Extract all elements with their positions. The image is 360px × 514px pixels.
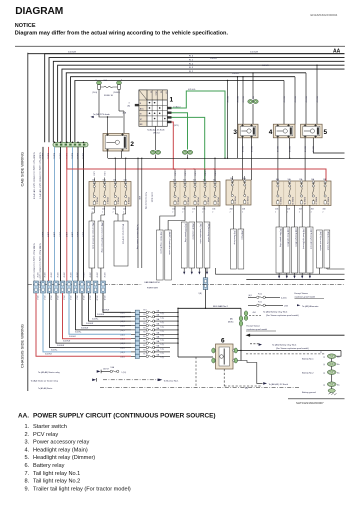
svg-text:5.00 B-W: 5.00 B-W — [210, 58, 217, 60]
inline connector — [73, 281, 78, 293]
svg-text:6: 6 — [221, 338, 225, 345]
battery No.2 cell a — [327, 370, 336, 375]
svg-text:FUSE 2: FUSE 2 — [106, 198, 108, 205]
svg-text:0.85 R-W: 0.85 R-W — [315, 96, 317, 103]
solid return line right — [246, 278, 344, 280]
svg-text:[EX] Wiper and washer: [EX] Wiper and washer — [319, 232, 322, 252]
svg-text:3.00 H-W: 3.00 H-W — [63, 341, 71, 343]
label box B2 — [197, 222, 203, 268]
svg-text:FL 12: FL 12 — [258, 293, 262, 295]
svg-text:30a: 30a — [337, 372, 340, 374]
svg-text:[FF] Accessory socket: [FF] Accessory socket — [207, 224, 210, 243]
wire elbow fuse B1 to mid box — [160, 206, 175, 230]
wire red main feed — [67, 147, 326, 181]
svg-text:3.00 W: 3.00 W — [50, 273, 52, 278]
svg-text:Diagram may differ from the ac: Diagram may differ from the actual wirin… — [15, 30, 229, 36]
earth joint connector mid-left — [150, 150, 160, 154]
fusible link — [257, 304, 259, 306]
wire chassis 43 — [43, 293, 131, 352]
svg-text:(For Taiwan explosion-proof mo: (For Taiwan explosion-proof model) — [266, 314, 299, 317]
wire bus FL line 4 — [58, 65, 345, 142]
svg-text:0.85 R-W: 0.85 R-W — [304, 96, 306, 103]
svg-text:FL 4: FL 4 — [144, 336, 147, 338]
bottom dashdot long — [100, 387, 300, 389]
wire elbow fuse B2 to mid box — [168, 206, 185, 230]
svg-text:7.: 7. — [25, 471, 30, 477]
svg-text:5.00 B-W: 5.00 B-W — [68, 52, 76, 54]
svg-text:0.85 R-L: 0.85 R-L — [59, 153, 61, 159]
svg-text:3.00 B-W: 3.00 B-W — [57, 345, 64, 347]
svg-text:SHT01Z21602/00007: SHT01Z21602/00007 — [296, 401, 324, 405]
svg-text:0.85 R-B: 0.85 R-B — [288, 146, 290, 152]
svg-text:To (FA) Intake air heater rela: To (FA) Intake air heater relay — [136, 224, 139, 249]
label box D7 — [324, 230, 330, 268]
fusible link — [146, 333, 148, 335]
relay R4 headlight relay main — [269, 124, 295, 138]
svg-text:FL 8: FL 8 — [144, 314, 147, 316]
svg-text:[EX] Accessory socket: [EX] Accessory socket — [327, 232, 330, 251]
wire bus bar drop — [240, 308, 242, 360]
svg-text:[Fb] Common rail (PCV): [Fb] Common rail (PCV) — [121, 224, 124, 245]
svg-text:3.00 H-L: 3.00 H-L — [51, 349, 58, 351]
wire bus FL line 3 — [53, 61, 344, 142]
svg-text:3.00 W: 3.00 W — [69, 273, 71, 278]
svg-text:Battery ground: Battery ground — [302, 391, 316, 394]
svg-text:3: 3 — [129, 103, 130, 105]
svg-text:[CA] Head light(Dimmer): [CA] Head light(Dimmer) — [302, 229, 305, 250]
wire battery link — [331, 366, 333, 370]
svg-text:Battery No.1: Battery No.1 — [302, 358, 314, 361]
fusible link — [146, 329, 148, 331]
svg-text:4CB: 4CB — [182, 209, 185, 211]
wire relay4 bottoms — [277, 138, 279, 181]
svg-text:2: 2 — [287, 211, 288, 213]
svg-text:0.85 R-B: 0.85 R-B — [276, 146, 278, 152]
svg-text:[FH] Radio: [FH] Radio — [241, 231, 243, 240]
svg-text:9.: 9. — [25, 486, 30, 492]
svg-text:3: 3 — [233, 129, 237, 136]
fusible link — [146, 342, 148, 344]
svg-text:FL 6: FL 6 — [144, 327, 147, 329]
inline connector — [54, 281, 59, 293]
arrow PCV diode — [91, 116, 94, 118]
svg-text:CAB SIDE WIRING: CAB SIDE WIRING — [20, 152, 25, 187]
starter switch SW1 table — [139, 90, 167, 126]
svg-text:2.: 2. — [25, 432, 30, 438]
dashed elbows fuse A to boxes — [92, 206, 94, 221]
svg-text:(BA,BC) Combination meter: (BA,BC) Combination meter — [168, 232, 171, 256]
wire relay5 bottoms — [304, 138, 306, 181]
wire drop to relay 4 pin1 — [283, 81, 285, 125]
svg-text:3.00 W: 3.00 W — [53, 232, 55, 238]
svg-text:3.00 W: 3.00 W — [43, 273, 45, 278]
svg-text:CAB MAIN W/H: CAB MAIN W/H — [144, 281, 160, 284]
label box D6 — [317, 230, 323, 268]
svg-text:FUSE 37: FUSE 37 — [315, 197, 317, 205]
svg-text:DIAGRAM: DIAGRAM — [15, 6, 63, 17]
svg-text:(19-G): (19-G) — [92, 92, 97, 94]
wire bus FL line 1 — [45, 54, 345, 143]
svg-text:To (AC,AJ) J/C Earth: To (AC,AJ) J/C Earth — [147, 129, 165, 132]
svg-text:[FC] ECU power relay: [FC] ECU power relay — [184, 224, 187, 242]
svg-text:1.25 B: 1.25 B — [183, 172, 185, 176]
wire bus FL line 5 — [62, 69, 345, 142]
svg-text:FL 11: FL 11 — [258, 301, 262, 303]
svg-text:2: 2 — [275, 211, 276, 213]
svg-text:FL 8: FL 8 — [144, 310, 147, 312]
svg-text:CHASSIS SIDE WIRING: CHASSIS SIDE WIRING — [20, 324, 25, 368]
wire relay5 to right edge — [313, 138, 344, 153]
svg-text:1.: 1. — [25, 424, 30, 430]
svg-text:3.00 W: 3.00 W — [89, 273, 91, 278]
harness boundary cab/chassis — [28, 284, 142, 286]
joint connector green bar — [53, 142, 88, 147]
wire chassis 82 — [82, 293, 131, 326]
svg-text:(LD) 2: (LD) 2 — [121, 352, 125, 354]
svg-text:8.: 8. — [25, 479, 30, 485]
relay R2 PCV relay — [103, 133, 134, 151]
svg-text:(LD) 2: (LD) 2 — [121, 317, 125, 319]
wire chassis 62.5 — [63, 293, 132, 339]
label box B1 — [189, 222, 195, 268]
wire red ST — [172, 122, 174, 169]
label box A2 — [98, 221, 104, 268]
svg-text:FL 7: FL 7 — [144, 319, 147, 321]
svg-text:5.00 B-W: 5.00 B-W — [250, 52, 258, 54]
label box C1 — [238, 229, 244, 269]
left wire bundle — [42, 147, 44, 281]
svg-text:4CB: 4CB — [172, 209, 175, 211]
svg-text:[FE] Combination meter: [FE] Combination meter — [199, 224, 202, 244]
svg-text:19P-GJ: 19P-GJ — [153, 133, 159, 135]
svg-text:FUSE 3: FUSE 3 — [117, 198, 119, 205]
svg-text:Except Taiwan: Except Taiwan — [295, 292, 309, 295]
svg-text:0.85 H-G: 0.85 H-G — [188, 89, 196, 91]
inline connector — [47, 281, 52, 293]
wire collector — [177, 308, 179, 357]
svg-text:[CA] Head light(Main): [CA] Head light(Main) — [287, 229, 290, 247]
svg-text:4CB: 4CB — [192, 209, 195, 211]
svg-text:0.85 R-L: 0.85 R-L — [53, 153, 55, 159]
svg-text:FL 6: FL 6 — [144, 323, 147, 325]
svg-text:EN1ZZ1602J/00004: EN1ZZ1602J/00004 — [311, 13, 338, 17]
svg-text:FL 9: FL 9 — [144, 349, 147, 351]
label box D3 — [299, 227, 305, 273]
svg-text:4CB: 4CB — [113, 209, 116, 211]
svg-text:1 (1-): 1 (1-) — [161, 318, 165, 320]
svg-text:1 (1-): 1 (1-) — [161, 357, 165, 359]
svg-text:Battery relay: Battery relay — [33, 463, 65, 469]
svg-text:FUSE 1: FUSE 1 — [96, 198, 98, 205]
wire tee to relay 3 pin1 — [242, 77, 244, 125]
svg-text:3.00 W: 3.00 W — [56, 273, 58, 278]
fuse block C — [226, 177, 251, 205]
svg-text:FUSE 4: FUSE 4 — [127, 198, 129, 205]
wire chassis 36 — [36, 293, 131, 356]
svg-text:2: 2 — [130, 141, 134, 148]
fuse block D — [272, 178, 331, 205]
battery ground — [331, 387, 333, 390]
svg-text:[FL] Horn power relay: [FL] Horn power relay — [279, 229, 282, 247]
svg-text:Tail light relay No.1: Tail light relay No.1 — [33, 471, 80, 477]
svg-text:1 (1-): 1 (1-) — [161, 313, 165, 315]
svg-text:To (AC) Battery relay No.4: To (AC) Battery relay No.4 — [272, 343, 297, 346]
long arrow line — [249, 334, 345, 336]
svg-text:explosion-proof model: explosion-proof model — [247, 328, 268, 331]
inline connector — [41, 281, 46, 293]
svg-text:4CB: 4CB — [102, 209, 105, 211]
svg-text:1 (1-): 1 (1-) — [161, 344, 165, 346]
svg-text:1: 1 — [170, 97, 174, 104]
svg-text:FUSE 35: FUSE 35 — [303, 197, 305, 205]
svg-text:[FA] Common rail (Vehicle side: [FA] Common rail (Vehicle side) — [92, 223, 95, 250]
wire to bus bar — [205, 290, 207, 309]
wire pair between fuse blocks — [137, 158, 139, 268]
svg-text:(B): (B) — [128, 106, 131, 108]
section rule — [15, 45, 345, 47]
svg-text:FUSE 17: FUSE 17 — [206, 198, 208, 206]
inline connector FL1 — [203, 278, 208, 290]
svg-text:[FN] Common rail (ECU main rel: [FN] Common rail (ECU main relay) — [101, 223, 104, 253]
wire chassis 49.5 — [50, 293, 132, 348]
green connector on bus drop — [239, 316, 243, 321]
fusible link — [146, 320, 148, 322]
svg-text:Except Taiwan: Except Taiwan — [247, 325, 261, 328]
svg-text:FL 5: FL 5 — [144, 332, 147, 334]
wire chassis 95.5 — [96, 293, 132, 317]
wire PCV relay top pins — [107, 117, 109, 134]
earth joint connector mid-right — [182, 150, 192, 154]
inline connector — [80, 281, 85, 293]
svg-text:Battery No.2: Battery No.2 — [302, 372, 314, 375]
svg-text:3.00 W: 3.00 W — [76, 273, 78, 278]
svg-text:1.25 B: 1.25 B — [193, 172, 195, 176]
fusible link — [146, 355, 148, 357]
svg-text:6.: 6. — [25, 463, 30, 469]
label box D4 — [307, 227, 313, 273]
svg-text:FUSE 33: FUSE 33 — [291, 197, 293, 205]
inline connector — [67, 281, 72, 293]
svg-text:Tail light relay No.2: Tail light relay No.2 — [33, 479, 80, 485]
svg-text:0.85 R-B: 0.85 R-B — [312, 146, 314, 152]
wire tee to relay 3 pin2 via earth — [252, 73, 254, 99]
svg-text:FUSE 11: FUSE 11 — [176, 198, 178, 206]
wire chassis 69 — [69, 293, 131, 334]
fusible link — [146, 338, 148, 340]
fusible link — [146, 316, 148, 318]
wire chassis 75.5 — [76, 293, 132, 330]
svg-text:30a: 30a — [337, 364, 340, 366]
svg-text:1 (1-): 1 (1-) — [161, 335, 165, 337]
svg-text:FUSE 16: FUSE 16 — [104, 95, 114, 97]
svg-text:3.00 W: 3.00 W — [82, 232, 84, 238]
svg-text:To (A9) Power supply circuit (: To (A9) Power supply circuit (Starter sw… — [33, 152, 36, 199]
wire bus FL line 7 — [71, 77, 295, 143]
wire bus FL line 2 — [49, 58, 344, 143]
svg-text:FUSE 39: FUSE 39 — [326, 197, 328, 205]
battery No.2 cell b — [327, 382, 336, 387]
svg-text:[FD] Air conditioner: [FD] Air conditioner — [192, 224, 195, 240]
svg-text:(S4) Starter relay (Engine): (S4) Starter relay (Engine) — [160, 232, 163, 254]
bottom right rule — [288, 398, 345, 400]
dashed vertical mid — [195, 357, 197, 388]
svg-text:30a: 30a — [337, 384, 340, 386]
wire chassis 88.5 — [89, 293, 132, 321]
label box mid 1 — [157, 230, 164, 280]
svg-text:3.00 W: 3.00 W — [76, 232, 78, 238]
relay R5 headlight relay dimmer — [301, 124, 328, 138]
label box D0 — [276, 227, 282, 273]
svg-text:NOTICE: NOTICE — [15, 23, 36, 29]
svg-text:ACC: ACC — [140, 107, 145, 110]
wire green M2 to fuse row — [172, 117, 205, 181]
inline connector — [101, 281, 106, 293]
dashed to battery plus — [246, 353, 325, 355]
svg-text:3.00 W: 3.00 W — [59, 232, 61, 238]
svg-text:3.00 W: 3.00 W — [103, 273, 105, 278]
label box B0 — [181, 222, 187, 268]
wire fuse16 right leg — [118, 89, 120, 111]
wire tee drop B — [237, 77, 239, 159]
wire relay to battery No.1 — [238, 350, 342, 352]
wire relay3 bottoms — [242, 138, 244, 180]
svg-text:(For Taiwan explosion-proof mo: (For Taiwan explosion-proof model) — [276, 347, 309, 350]
fusible link — [257, 296, 259, 298]
svg-text:0.85 R-L: 0.85 R-L — [47, 153, 49, 159]
svg-text:To (A5,A6) Starter relay: To (A5,A6) Starter relay — [38, 371, 61, 374]
svg-text:1 (1-): 1 (1-) — [161, 340, 165, 342]
svg-text:rectifier diode: rectifier diode — [151, 192, 154, 202]
fuse FUSE 16 — [92, 79, 122, 97]
svg-text:POWER SUPPLY CIRCUIT (CONTINUO: POWER SUPPLY CIRCUIT (CONTINUOUS POWER S… — [33, 413, 216, 420]
svg-text:1: 1 — [96, 80, 97, 82]
FL 12 row — [248, 296, 256, 298]
svg-text:1.25 B: 1.25 B — [203, 172, 205, 176]
svg-text:[FG] Room lamp: [FG] Room lamp — [233, 231, 235, 245]
wire drop to relay 4 pin2 — [294, 77, 296, 125]
svg-text:BUS BAR No.2: BUS BAR No.2 — [213, 305, 229, 308]
svg-text:FUSE 21: FUSE 21 — [234, 197, 236, 205]
label box mid 2 — [165, 230, 172, 280]
svg-text:1.25 B: 1.25 B — [213, 172, 215, 176]
svg-text:5.00 B-W: 5.00 B-W — [232, 73, 239, 75]
bus bar No.2 line — [178, 307, 241, 309]
svg-text:To (A2) Intake air heater rela: To (A2) Intake air heater relay — [31, 379, 59, 382]
svg-text:FUSE 23: FUSE 23 — [246, 197, 248, 205]
svg-text:(H) 1: (H) 1 — [249, 295, 253, 297]
svg-text:3.00 H-L: 3.00 H-L — [75, 332, 82, 334]
svg-text:5: 5 — [324, 129, 328, 136]
svg-text:3.: 3. — [25, 440, 30, 446]
svg-text:1(B): 1(B) — [199, 293, 202, 295]
svg-text:4X4: 4X4 — [253, 312, 256, 314]
wire relay pin2 to JC earth — [238, 361, 263, 384]
svg-text:To (A9) Power supply circuit (: To (A9) Power supply circuit (Starter sw… — [39, 152, 42, 199]
svg-text:To (AX) Alternator: To (AX) Alternator — [302, 305, 319, 308]
wire fuse16 to PCV diode line — [99, 89, 123, 117]
svg-text:1 (1-D): 1 (1-D) — [122, 372, 127, 374]
svg-text:3.00 B-W: 3.00 B-W — [81, 327, 88, 329]
fusible link — [146, 311, 148, 313]
svg-text:0.85 R-L: 0.85 R-L — [76, 153, 78, 159]
svg-text:4.: 4. — [25, 447, 30, 453]
svg-text:To Bus bar No.1: To Bus bar No.1 — [164, 379, 180, 382]
svg-text:0.85 Y-R: 0.85 Y-R — [103, 369, 110, 371]
relay R3 power accessory relay — [233, 124, 258, 138]
svg-text:FUSE 19: FUSE 19 — [216, 198, 218, 206]
fusible link starter relay — [110, 370, 112, 372]
svg-text:4CB: 4CB — [299, 209, 302, 211]
svg-text:0.85 R-W: 0.85 R-W — [282, 96, 284, 103]
svg-text:(LD) 2: (LD) 2 — [121, 356, 125, 358]
svg-text:4CB: 4CB — [275, 209, 278, 211]
wire bus FL line 0 across — [28, 53, 345, 55]
svg-text:1 (1-): 1 (1-) — [161, 322, 165, 324]
svg-text:0.85 R-W: 0.85 R-W — [236, 96, 238, 103]
svg-text:(BUS5): (BUS5) — [228, 322, 234, 324]
svg-text:3.00 H-W: 3.00 H-W — [102, 310, 110, 312]
svg-text:0.85 R-L: 0.85 R-L — [71, 153, 73, 159]
svg-text:L(ST1): L(ST1) — [173, 125, 179, 127]
svg-text:To (A5,A6) Starter: To (A5,A6) Starter — [38, 387, 53, 390]
svg-text:4CB: 4CB — [230, 209, 233, 211]
svg-text:0.85 R-L: 0.85 R-L — [82, 153, 84, 159]
svg-text:4CB: 4CB — [323, 209, 326, 211]
svg-text:30a: 30a — [337, 356, 340, 358]
svg-text:4CB: 4CB — [242, 209, 245, 211]
svg-text:FL 3: FL 3 — [144, 341, 147, 343]
inline connector — [86, 281, 91, 293]
inline connector — [60, 281, 65, 293]
label box return line — [214, 268, 216, 274]
svg-text:FL 2: FL 2 — [144, 345, 147, 347]
label box D2 — [291, 227, 297, 273]
battery No.1 cell a — [327, 354, 336, 359]
svg-text:To (AD,AF) J/C Earth: To (AD,AF) J/C Earth — [269, 383, 289, 386]
svg-text:FL 10: FL 10 — [144, 354, 148, 356]
fusible link — [146, 324, 148, 326]
svg-text:3.00 W: 3.00 W — [63, 273, 65, 278]
svg-text:4: 4 — [269, 129, 273, 136]
svg-text:Headlight relay (Dimmer): Headlight relay (Dimmer) — [33, 455, 95, 461]
svg-text:(LD) 2: (LD) 2 — [121, 330, 125, 332]
svg-text:4CB: 4CB — [202, 209, 205, 211]
svg-text:4CB: 4CB — [92, 209, 95, 211]
fuse block A — [89, 179, 131, 206]
svg-text:(LD) 2: (LD) 2 — [121, 312, 125, 314]
svg-text:0.85 R-B: 0.85 R-B — [303, 146, 305, 152]
svg-text:0.85 R-W: 0.85 R-W — [241, 96, 243, 103]
svg-text:1 (1-): 1 (1-) — [161, 326, 165, 328]
label box B3 — [204, 222, 210, 268]
svg-text:(LD) 2: (LD) 2 — [121, 343, 125, 345]
svg-text:0.85 R-W: 0.85 R-W — [226, 96, 228, 103]
wire chassis 56 — [56, 293, 131, 343]
wire bus FL line 8 — [75, 81, 284, 143]
svg-text:To (FA) PCV diode: To (FA) PCV diode — [93, 113, 110, 116]
wire fuse to box B4 — [203, 206, 205, 222]
svg-text:3.00 W: 3.00 W — [36, 273, 38, 278]
fusible link — [146, 346, 148, 348]
svg-text:Power accessory relay: Power accessory relay — [145, 192, 148, 209]
label box A1 — [89, 221, 95, 268]
wire green M1 — [172, 113, 188, 150]
fuse stubs — [93, 178, 95, 182]
green connector option tap — [244, 311, 248, 316]
svg-text:3.00 W: 3.00 W — [47, 232, 49, 238]
battery No.1 cell b — [327, 362, 336, 367]
svg-text:4CB: 4CB — [287, 209, 290, 211]
